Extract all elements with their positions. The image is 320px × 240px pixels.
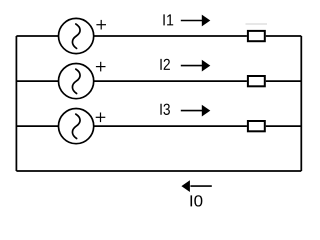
resistor R1 (load box) [248, 31, 265, 41]
wire: phase 2 from source to load R2 [94, 80, 247, 82]
wire: phase 1 from R1 to right bus [266, 35, 302, 37]
polarity plus of V3 [96, 113, 106, 123]
resistor R2 (load box) [248, 76, 265, 86]
wire: phase 3 from left bus to source [16, 125, 58, 127]
label I1 [163, 14, 173, 25]
arrow: return current I0 direction [181, 180, 211, 192]
polarity plus of V1 [96, 20, 106, 30]
arrow: current I1 direction [181, 15, 211, 27]
ac source V2 [59, 64, 94, 99]
wire: left neutral bus (vertical) [15, 36, 17, 171]
label I2 [160, 59, 170, 70]
label I3 [160, 104, 170, 115]
wire: phase 2 from R2 to right bus [266, 80, 302, 82]
resistor R3 (load box) [248, 121, 265, 131]
wire: right load bus (vertical) [300, 36, 302, 171]
wire: phase 2 from left bus to source [16, 80, 58, 82]
polarity plus of V2 [96, 62, 106, 72]
wire: phase 1 from source to load R1 [94, 35, 247, 37]
ghost faint line above R1 [246, 23, 268, 25]
ac source V3 [59, 109, 94, 144]
arrow: current I2 direction [181, 60, 211, 72]
ac source V1 [59, 18, 94, 53]
wire: phase 3 from source to load R3 [94, 125, 247, 127]
wire: bottom return conductor [16, 170, 301, 172]
arrow: current I3 direction [181, 105, 211, 117]
wire: phase 3 from R3 to right bus [266, 125, 302, 127]
wire: phase 1 from left bus to source [16, 35, 58, 37]
label I0 [191, 195, 203, 206]
